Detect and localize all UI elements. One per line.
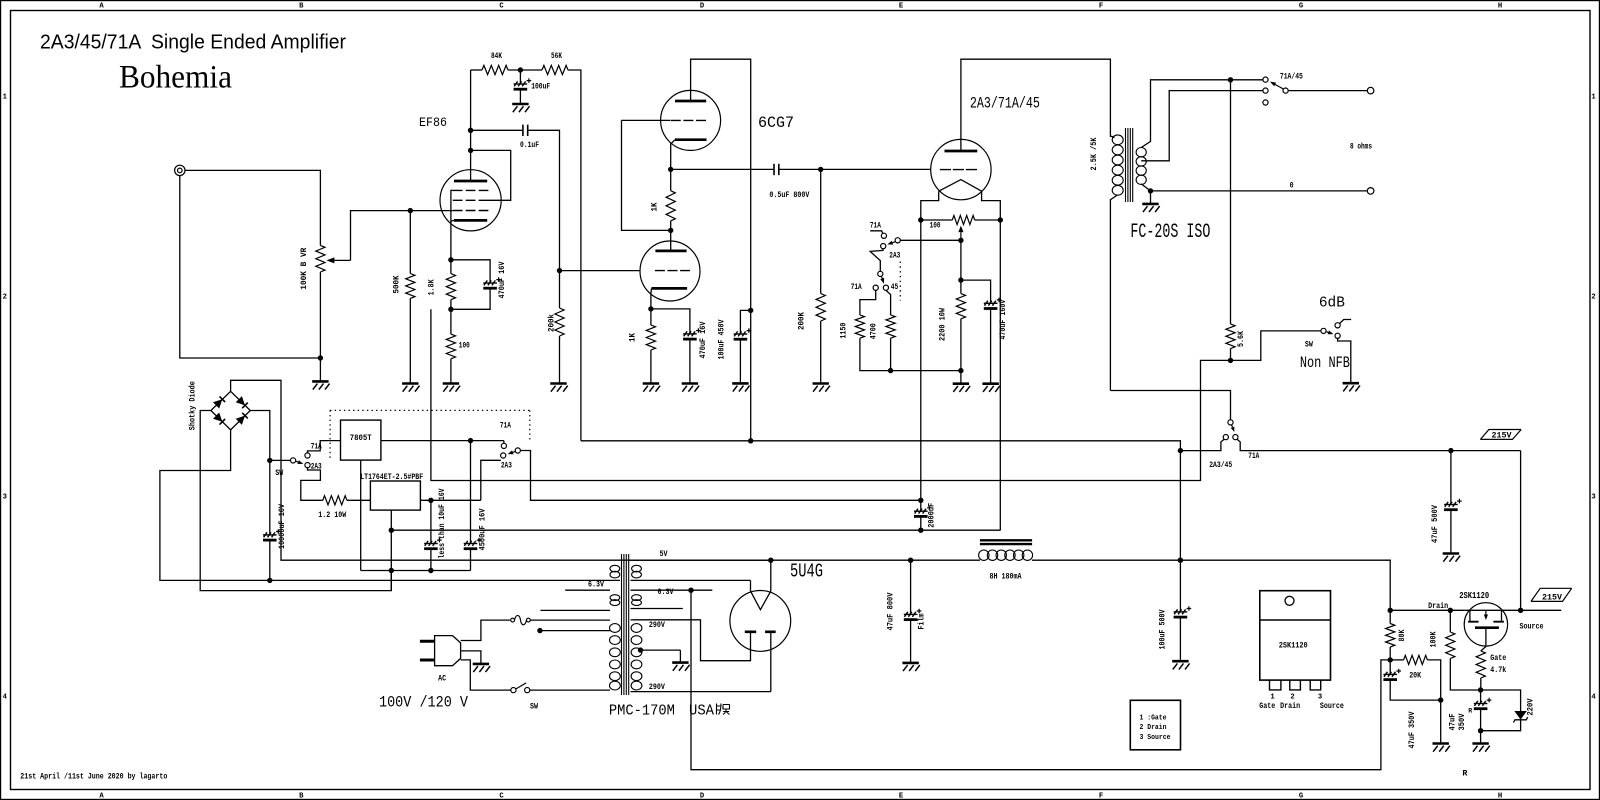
node bias cap junction [960,240,962,280]
svg-text:0.1uF: 0.1uF [520,142,539,150]
node NFB takeoff [1228,77,1233,82]
node 215V rail junction [1178,448,1183,453]
svg-text:4700: 4700 [871,323,879,339]
PMC right 6.3V winding [632,595,642,601]
wire heater line down [691,590,1390,770]
resistor 100 hum balance [921,219,953,221]
svg-text:290V: 290V [649,684,665,692]
svg-text:45: 45 [891,284,899,292]
node gnd bus junction [389,568,394,573]
svg-text:F: F [1099,3,1103,11]
node bus 10uF [428,568,433,573]
svg-text:21st April /11st June 2020 by: 21st April /11st June 2020 by lagarto [20,774,167,782]
svg-text:2SK1120: 2SK1120 [1279,641,1308,650]
capacitor 47uF 800V Film [910,560,912,614]
svg-text:47uF 350V: 47uF 350V [1409,711,1417,748]
wire secondary top tap [1141,80,1263,148]
package 2SK1120 outline [1260,591,1331,680]
svg-text:47uF 500V: 47uF 500V [1432,505,1440,543]
svg-text:Bohemia: Bohemia [119,60,232,96]
svg-text:2A3/45/71A Single Ended Ampli: 2A3/45/71A Single Ended Amplifier [40,31,346,54]
table pinout box [1130,700,1180,750]
wire 71A contact to 7805T [308,441,341,453]
wire secondary mid tap [1141,91,1263,161]
svg-text:6dB: 6dB [1319,296,1345,312]
node EF86 screen junction [468,148,473,153]
switch bias selector deck2 [878,271,883,276]
node choke output [1178,558,1183,563]
wire LT1764 output [420,499,480,501]
capacitor less than 10uF 16V [430,500,432,543]
svg-text:1: 1 [3,94,8,102]
capacitor 470uF 16V lower cathode [651,309,690,334]
wire filament return [391,220,1000,530]
wire 2A3 output contact [481,460,501,500]
pot wiper arrow [334,259,350,261]
choke 8H 180mA [911,559,980,561]
resistor 1.2 10W [323,496,347,505]
svg-text:4: 4 [3,694,8,702]
6CG7 upper cathode [675,138,707,141]
svg-text:3 Source: 3 Source [1140,734,1171,742]
svg-text:Gate: Gate [1490,655,1506,663]
capacitor 100uF 500V [1179,560,1181,612]
ground 1K [643,382,659,385]
node divider return [1438,697,1443,702]
EF86 cathode lead [450,221,452,260]
5U4G left plate wire [633,620,751,661]
PMC primary winding [610,624,621,633]
regulator LT1764ET-2.5#PBF [370,481,420,510]
node drain right [1448,608,1453,613]
switch mains SW [511,688,516,693]
power tube plate lead [961,59,1111,151]
resistor 84K plate load [482,65,508,74]
wire filament+ to tube [920,220,922,500]
wire 215V rail to source [1520,451,1522,611]
resistor 4.7k gate stopper [1481,629,1486,651]
svg-text:2SK1120: 2SK1120 [1459,590,1489,601]
6CG7 upper plate lead to B+ [691,59,751,310]
svg-text:SW: SW [530,704,538,712]
svg-text:8 ohms: 8 ohms [1350,144,1372,152]
svg-text:80K: 80K [1399,629,1407,641]
ground 100uF 500V [1172,660,1188,663]
svg-text:Source: Source [1520,623,1544,631]
ground secondary [1150,191,1152,204]
svg-text:100uF 450V: 100uF 450V [719,319,727,359]
wire 7805T output [381,440,504,442]
svg-text:LT1764ET-2.5#PBF: LT1764ET-2.5#PBF [360,474,423,482]
terminal speaker + [1367,87,1374,94]
input jack J1 [175,165,185,175]
node 4500uF junction [468,438,473,443]
wire B+ to drain node [1180,560,1390,610]
svg-text:2: 2 [3,294,7,302]
svg-text:1K: 1K [629,333,637,342]
5U4G right plate wire [770,632,772,692]
capacitor 0.1uF coupling [471,129,523,131]
switch plate supply selector [1110,391,1230,420]
EF86 internal g3-cathode tie [451,190,454,221]
terminal speaker 0 [1367,188,1374,195]
5U4G filament [751,591,771,610]
PMC HV winding [631,624,642,633]
svg-text:AC: AC [438,675,446,683]
svg-text:84K: 84K [491,53,502,61]
capacitor 47uF 500V [1450,451,1452,505]
svg-text:220V: 220V [1527,698,1535,715]
wire bridge DC+ [250,411,269,461]
node NFB bottom junction [1228,358,1233,363]
6CG7 lower cathode [652,287,688,290]
wire screen tie [471,150,511,200]
capacitor 100uF decoupling [519,70,521,84]
ground NonNFB [1343,382,1359,385]
tube EF86 [440,170,501,231]
wire to bias switch [900,239,961,241]
wire front-end B+ rail [581,441,1181,451]
6CG7 upper grid dashes [622,119,671,121]
node SRPP mid junction [670,221,672,231]
node 2000uF junction [918,498,923,503]
svg-text:71A: 71A [1248,453,1259,461]
svg-text:1.8K: 1.8K [429,279,437,295]
wire 0.1uF to 6CG7 grid [528,130,559,270]
svg-text:2: 2 [1290,693,1294,701]
svg-text:3: 3 [1318,693,1322,701]
svg-text:C: C [499,793,504,800]
node EF86 cathode NFB junction [450,300,452,310]
resistor 200k grid leak 6CG7 [559,271,561,308]
svg-text:R: R [1468,708,1472,715]
node 6CG7 B+ filter junction [748,308,753,313]
svg-text:USA: USA [689,703,714,720]
svg-text:R: R [1462,771,1467,779]
resistor 200K power grid leak [820,169,822,293]
node film cap junction [908,558,913,563]
node 2000uF return [918,528,923,533]
svg-text:D: D [700,3,705,11]
svg-text:Shotky Diode: Shotky Diode [189,381,197,430]
svg-text:2200 10W: 2200 10W [939,308,947,341]
wire 6dB stub [1340,320,1352,324]
svg-text:5U4G: 5U4G [790,561,823,583]
wire 56K to B+ rail riser [568,70,581,441]
svg-text:350V: 350V [1459,713,1467,730]
wire input sleeve loop [180,176,321,358]
svg-text:215V: 215V [1542,594,1562,602]
svg-text:1K: 1K [652,202,660,211]
node filament left [918,217,923,222]
svg-text:3: 3 [1591,494,1595,502]
wire input to pot [185,170,320,245]
ground divider [1440,700,1442,743]
svg-text:H: H [1498,3,1502,11]
svg-text:1: 1 [1270,693,1275,701]
ground 100uF [519,89,521,104]
wire left 6.3V stubs [565,589,610,591]
svg-text:100: 100 [930,222,941,230]
svg-text:470uF 16V: 470uF 16V [700,321,708,358]
capacitor 47uF 350V gate [1480,690,1482,704]
svg-text:2A3: 2A3 [501,462,512,470]
wire to speaker terminal [1288,90,1367,92]
resistor 1K SRPP [670,169,672,190]
zener 220V [1481,690,1521,711]
node power grid junction [779,168,821,170]
svg-text:2A3/71A/45: 2A3/71A/45 [970,94,1040,112]
svg-text:PMC-170M: PMC-170M [609,703,675,720]
PMC right 5V winding [632,565,642,572]
dotted 2A3 no-connect [899,262,901,301]
wire AC neutral [461,660,511,690]
wire 5V top [631,559,771,561]
node secondary ground junction [1148,188,1153,193]
wire B+ rail [631,559,911,561]
dotted box filament regs [330,410,530,458]
svg-text:1.2 10W: 1.2 10W [318,512,346,520]
node drain [1388,608,1393,613]
svg-text:G: G [1299,3,1303,11]
svg-text:4: 4 [1591,694,1596,702]
ground 470uF [682,382,698,385]
svg-text:20K: 20K [1409,673,1421,681]
flag 215V source [1531,588,1572,601]
node 6CG7 B+ tap [748,438,753,443]
PMC left 6.3V winding [610,595,620,601]
node gate network junction [1478,687,1483,692]
switch link deck1-deck2 [870,249,883,271]
svg-text:8H 180mA: 8H 180mA [990,574,1022,582]
wire HV bottom 290V [631,691,771,693]
svg-text:SW: SW [1305,341,1313,349]
node cathode bias junction [958,238,963,243]
power tube filament [939,180,982,192]
wire upper grid tie [622,120,671,230]
svg-text:6.3V: 6.3V [588,582,604,590]
node 47uF 500V junction [1448,448,1453,453]
HV center tap [638,647,643,652]
svg-text:F: F [1099,793,1103,800]
svg-text:7805T: 7805T [350,435,372,443]
tube 5U4G [730,591,791,652]
node pot ground junction [318,355,323,360]
resistor 100 EF86 cathode [450,309,452,334]
svg-text:1150: 1150 [840,322,848,338]
node EF86 grid junction [408,208,413,213]
svg-text:100uF 500V: 100uF 500V [1159,609,1167,649]
svg-text:1 :Gate: 1 :Gate [1140,714,1167,722]
ground 470uF 160V [982,382,998,385]
svg-text:5.6K: 5.6K [1238,331,1246,347]
ground HV center tap [679,650,681,663]
resistor 1.8K cathode [448,257,453,262]
tube 6CG7 upper triode [661,90,721,150]
svg-text:E: E [899,793,904,800]
potentiometer 100K B VR [316,245,325,272]
package pins [1270,680,1281,690]
svg-text:71A: 71A [870,222,881,230]
resistor 500K grid leak [409,211,411,274]
node EF86 plate-cap junction [468,128,473,133]
switch output tap 71A/45 [1263,77,1268,82]
svg-text:B: B [299,3,304,11]
capacitor 2000uF [920,500,922,511]
svg-text:10000uF 16V: 10000uF 16V [279,504,287,549]
capacitor 10000uF 16V [269,460,271,535]
FC-20S secondary [1136,148,1146,157]
svg-text:100uF: 100uF [531,84,550,92]
svg-text:2A3: 2A3 [889,252,900,260]
ground 200K [813,382,829,385]
wire 6CG7 B+ to rail [750,310,752,440]
svg-text:470uF 16V: 470uF 16V [499,261,507,298]
svg-text:0: 0 [1290,183,1294,191]
ground pot [319,358,321,381]
svg-text:A: A [99,3,104,11]
svg-text:71A: 71A [500,422,511,430]
node bias resistor return [958,368,963,373]
svg-text:71A: 71A [851,284,862,292]
wire 5V bottom [631,579,751,581]
label kanji ban [717,704,730,715]
PMC left AC winding [610,565,620,572]
node lower cathode junction [648,306,653,311]
node 6CG7 grid junction [557,268,562,273]
svg-text:47uF: 47uF [1450,713,1458,730]
svg-text:Film: Film [919,613,927,629]
node heater takeoff [631,589,713,591]
node bias resistors return [888,368,893,373]
svg-text:Non NFB: Non NFB [1300,354,1350,372]
node 5V B+ takeoff [768,558,773,563]
svg-text:290V: 290V [649,622,665,630]
wire NFB to switch pole [1231,331,1321,361]
transistor 2SK1120 mosfet [1464,603,1507,646]
FC-20S core [1125,128,1127,202]
svg-text:6CG7: 6CG7 [758,114,794,132]
svg-text:47uF 800V: 47uF 800V [888,592,896,630]
resistor 1150 bias 71A [860,290,876,315]
switch filament input selector [270,459,291,461]
svg-text:100: 100 [459,342,470,350]
svg-text:470uF 160V: 470uF 160V [1000,299,1008,339]
svg-text:G: G [1299,793,1303,800]
svg-text:5V: 5V [660,551,668,559]
ground 2200 [960,371,962,384]
power tube grid wire [821,168,931,170]
wire 2A3 contact to 1.2ohm [301,468,323,501]
wire bias return bus [891,370,961,372]
wire LT1764 gnd pin [390,510,392,590]
ground AC earth [473,663,489,666]
svg-text:215V: 215V [1492,433,1512,441]
svg-text:B: B [299,793,304,800]
svg-text:H: H [1498,793,1502,800]
wire primary top [531,619,610,621]
svg-text:E: E [899,3,904,11]
svg-text:2000uF: 2000uF [928,503,936,528]
wire AC earth [461,651,481,664]
resistor 5.6K NFB [1230,80,1232,324]
wire HV top 290V [631,619,701,621]
resistor 100K [1449,610,1451,632]
regulator 7805T [341,420,381,460]
resistor 2200 10W [960,280,962,294]
wire primary bottom [530,689,610,691]
ground 47uF 500V [1443,552,1459,555]
svg-text:4500uF 16V: 4500uF 16V [479,508,487,550]
node return to LT1764 gnd [389,528,394,533]
svg-text:200k: 200k [549,314,557,332]
svg-text:2 Drain: 2 Drain [1140,724,1167,732]
flag 215V rail [1480,430,1521,440]
ground film cap [902,662,918,665]
capacitor 4500uF 16V [470,441,472,544]
svg-text:71A/45: 71A/45 [1280,74,1303,82]
resistor 4700 bias 45 [886,290,891,315]
svg-text:less than 10uF 16V: less than 10uF 16V [439,488,447,558]
svg-text:0.5uF 800V: 0.5uF 800V [769,192,809,200]
node SRPP output [668,167,673,172]
ground gate network [1480,731,1482,744]
wire B+ riser to 215V rail [1179,451,1181,561]
switch NFB 6dB/Non-NFB [1321,328,1326,333]
svg-text:EF86: EF86 [419,115,447,130]
wire bridge AC1 top [231,380,631,560]
capacitor 47uF 350V divider [1389,660,1391,675]
wire bridge DC- [200,411,391,591]
node filament right [998,217,1003,222]
svg-text:100K: 100K [1430,631,1438,647]
node less-than-10uF junction [428,498,433,503]
plug AC [435,636,461,666]
node gate divider junction [1388,657,1393,662]
svg-text:SW: SW [275,470,283,478]
svg-text:4.7k: 4.7k [1490,667,1506,675]
capacitor 0.5uF 800V coupling [671,168,774,170]
capacitor 100uF 450V [740,310,750,334]
wire drain to mosfet [1390,609,1464,611]
5U4G plates [745,630,776,633]
wire AC hot [461,620,510,640]
EF86 plate lead [470,70,472,181]
svg-text:2A3/45: 2A3/45 [1209,462,1232,470]
svg-text:A: A [99,793,104,800]
svg-text:200K: 200K [798,312,806,330]
svg-text:D: D [700,793,705,800]
svg-text:Gate: Gate [1259,703,1275,711]
svg-text:100K B VR: 100K B VR [301,247,309,289]
hum pot wiper arrow [960,232,962,240]
svg-text:100V /120 V: 100V /120 V [379,694,468,712]
ground 200k [550,382,566,385]
svg-text:FC-20S ISO: FC-20S ISO [1130,221,1210,244]
wire source stub [1521,609,1562,611]
6CG7 lower grid dashes [560,270,641,272]
resistor 56K [542,65,568,74]
wire bridge AC2 bottom [160,430,620,581]
tube 6CG7 lower triode [640,241,700,301]
ground 100uF 450V [732,382,748,385]
wire right 6.3V bottom stub [631,608,683,610]
resistor 20K [1404,655,1428,664]
svg-text:C: C [499,3,504,11]
tube 2A3/71A/45 [931,139,991,199]
node raw DC junction [267,458,272,463]
wire wiper to EF86 grid [351,211,453,261]
